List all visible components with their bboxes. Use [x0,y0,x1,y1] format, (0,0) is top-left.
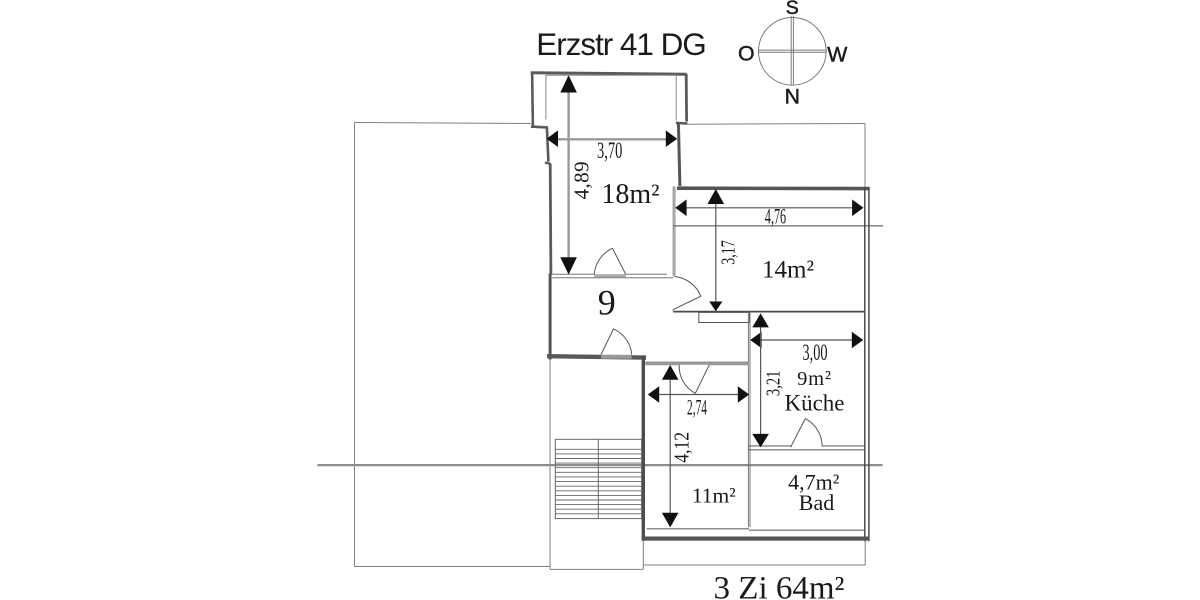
hall bottom wall [547,356,646,357]
dormer left wall [531,72,534,128]
room 11 door wedge [679,365,709,394]
room 18 left wall lower [549,164,553,274]
svg-text:18m²: 18m² [601,179,659,210]
room 11 bottom line [647,528,749,530]
room 18 left wall step [545,163,551,165]
svg-text:11m²: 11m² [692,483,736,507]
staircase outline [555,439,641,518]
svg-text:Küche: Küche [784,391,844,416]
room 14 door wedge [674,277,701,310]
compass needle horizontal double line [758,49,827,51]
hall door wedge [601,329,632,355]
building outline right edge lower [864,541,866,565]
room 18 right wall [678,123,680,187]
compass circle [759,18,827,86]
staircase middle divider [597,439,599,518]
room 18 door sill [594,275,626,278]
svg-text:3,70: 3,70 [597,139,622,164]
kitchen door wedge [791,419,823,448]
svg-text:9: 9 [598,283,616,323]
svg-text:W: W [827,43,848,67]
svg-text:4,12: 4,12 [671,432,694,463]
building outline right edge upper [864,124,866,188]
svg-text:9m²: 9m² [797,368,832,390]
dimension 4,76 [675,200,863,229]
dimension 3,70 [547,130,678,164]
dimension 3,17 [708,189,740,311]
stair shaft left edge [549,359,551,570]
svg-text:3,00: 3,00 [803,341,828,366]
room 18 bottom wall upper line [550,273,668,275]
svg-text:2,74: 2,74 [687,394,707,419]
dimension 4,12 [662,365,694,527]
building outline left edge [354,123,356,567]
dormer top wall [531,73,687,75]
right outer wall double line outer [868,187,870,541]
roof line lower full width [317,464,882,466]
roof line upper right [674,225,884,227]
kitchen threshold rect [699,312,750,322]
svg-text:N: N [785,85,800,109]
room 11 left wall [642,356,645,541]
hall door sill [601,355,632,359]
dimension 4,89 [560,75,593,274]
svg-text:3,17: 3,17 [716,240,739,265]
stair shaft right edge below wall [642,541,644,570]
svg-text:4,76: 4,76 [765,204,786,229]
compass needle vertical double line [790,16,792,85]
building outline top edge left of dormer [355,123,532,124]
hall east wall upper [672,187,674,277]
building outline bottom left [355,566,551,568]
apartment bottom wall [643,537,869,541]
kitchen left wall double line [747,312,749,528]
svg-text:Bad: Bad [799,490,834,515]
dormer right wall [685,74,688,122]
stair shaft bottom edge [550,568,643,570]
dimension 3,00 [750,332,863,366]
svg-text:3 Zi 64m²: 3 Zi 64m² [714,571,845,600]
dormer right jog wall [676,122,688,125]
dimension 3,21 [752,313,784,447]
svg-text:14m²: 14m² [762,257,814,284]
dormer inner outline [546,75,676,121]
building outline bottom right [643,564,865,566]
room 14 bottom wall [674,311,865,313]
svg-text:Erzstr 41 DG: Erzstr 41 DG [536,26,705,62]
svg-text:O: O [738,42,755,66]
right outer wall double line inner [864,187,866,541]
svg-text:4,89: 4,89 [570,161,594,199]
room 11 top wall [645,362,748,365]
hall left wall [549,274,552,360]
room 18 bottom wall lower line [552,277,674,279]
building outline top edge right of dormer [687,123,865,126]
svg-text:3,21: 3,21 [761,371,784,397]
bad bottom line [749,529,865,531]
kitchen bottom wall double line [748,445,865,447]
svg-text:S: S [786,0,799,19]
dormer left jog wall [531,125,548,128]
dimension 2,74 [648,386,749,419]
room 11 door opening chord [679,364,710,366]
room 18 door wedge [594,248,626,274]
room 14 top wall [677,186,870,190]
room 18 left wall upper slanted [547,127,549,162]
hall east wall stub [672,309,674,312]
staircase treads [555,449,641,514]
